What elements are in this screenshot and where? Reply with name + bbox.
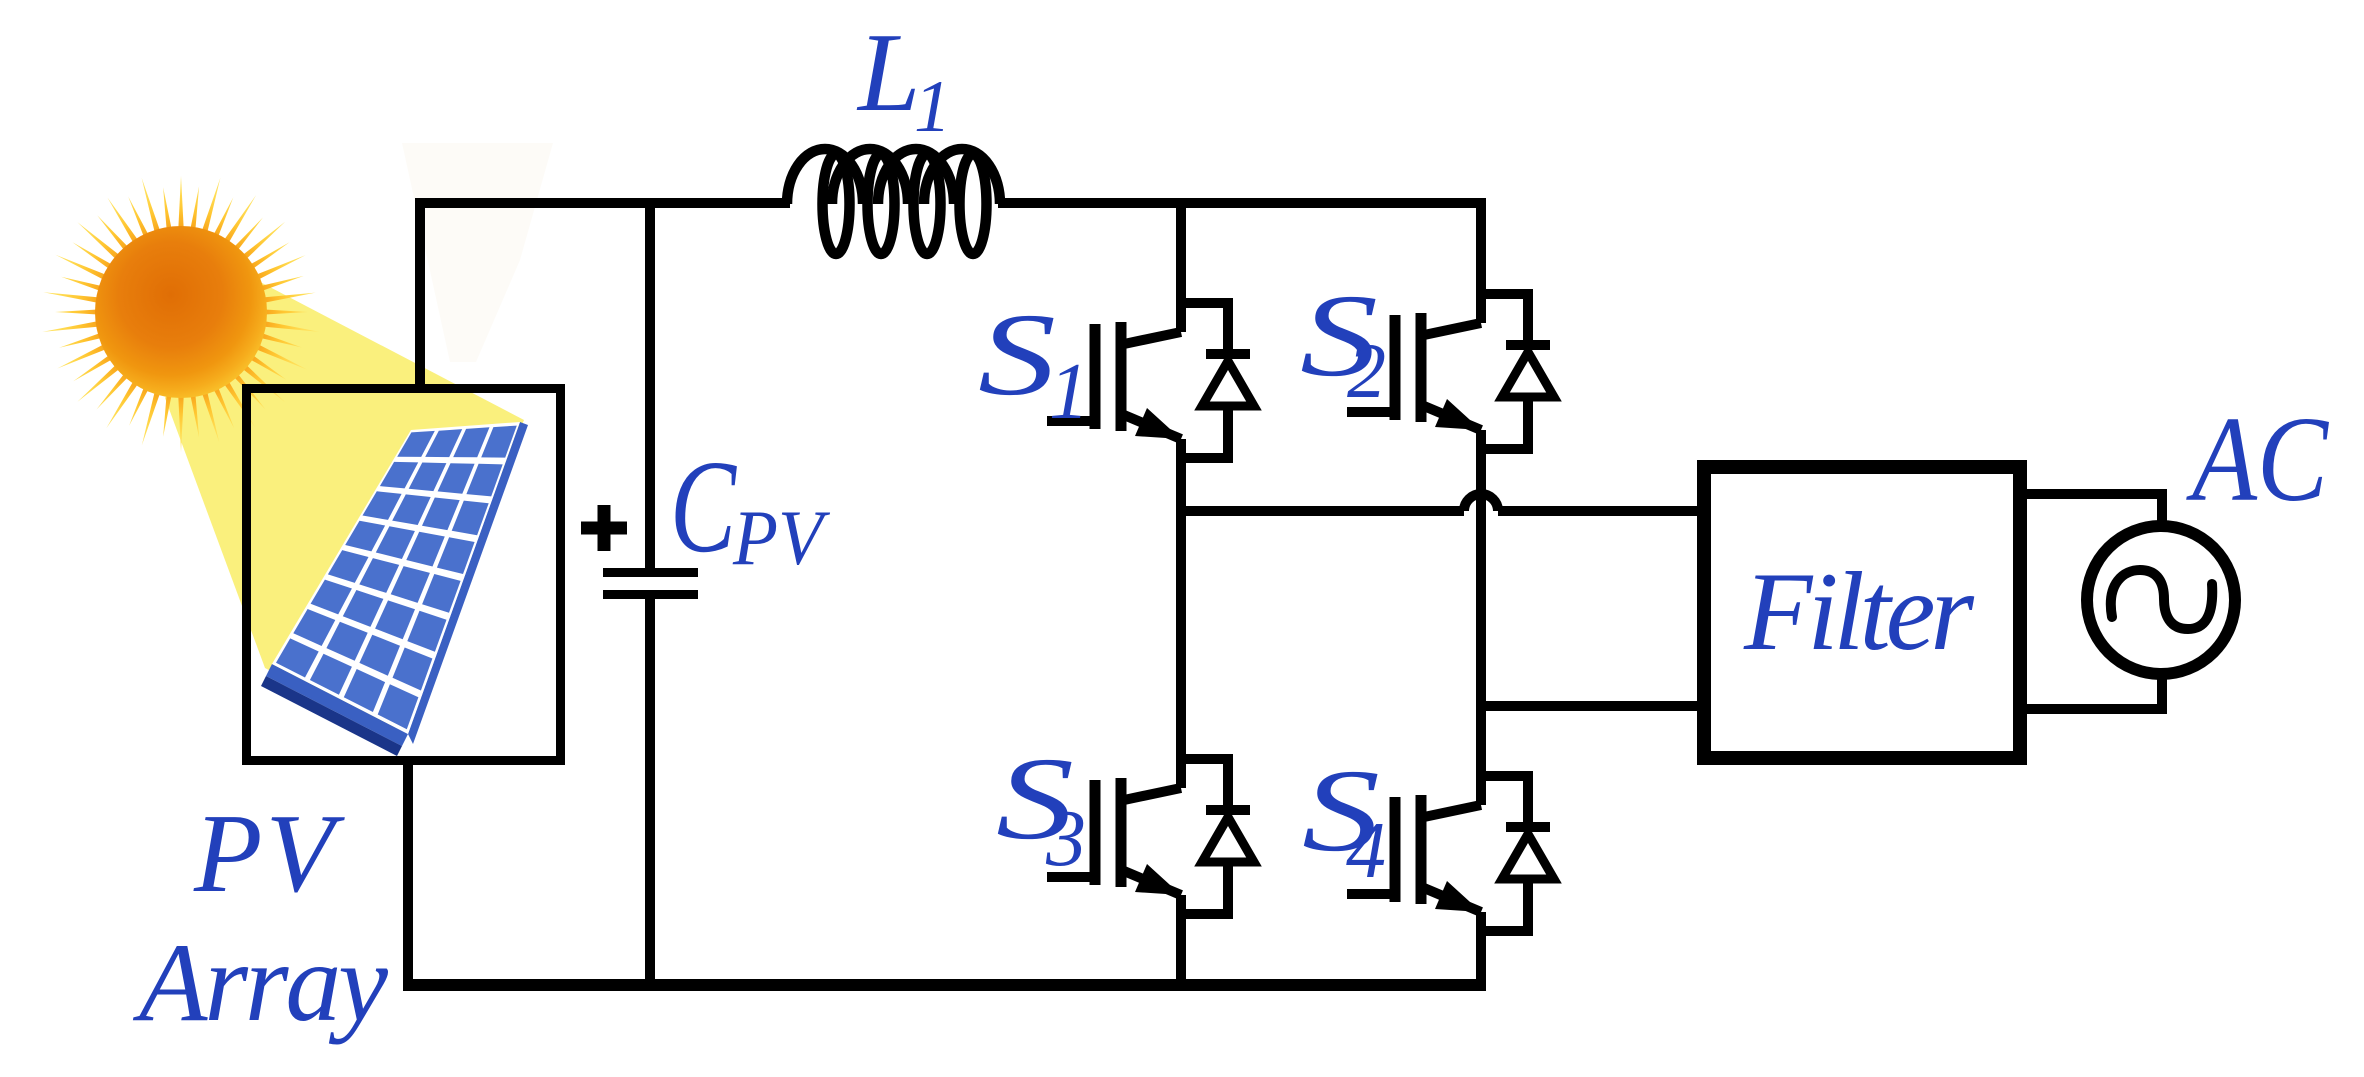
svg-text:AC: AC [2186,392,2330,527]
svg-text:Array: Array [132,921,388,1045]
svg-text:4: 4 [1346,807,1386,895]
svg-text:2: 2 [1347,327,1386,414]
svg-text:PV: PV [193,792,346,916]
svg-text:C: C [670,432,737,580]
svg-text:1: 1 [1049,348,1089,436]
svg-text:L: L [856,11,920,135]
svg-text:PV: PV [732,494,831,581]
svg-text:3: 3 [1045,795,1086,883]
svg-text:Filter: Filter [1743,550,1974,674]
svg-text:1: 1 [914,66,951,148]
svg-text:S: S [978,289,1056,420]
